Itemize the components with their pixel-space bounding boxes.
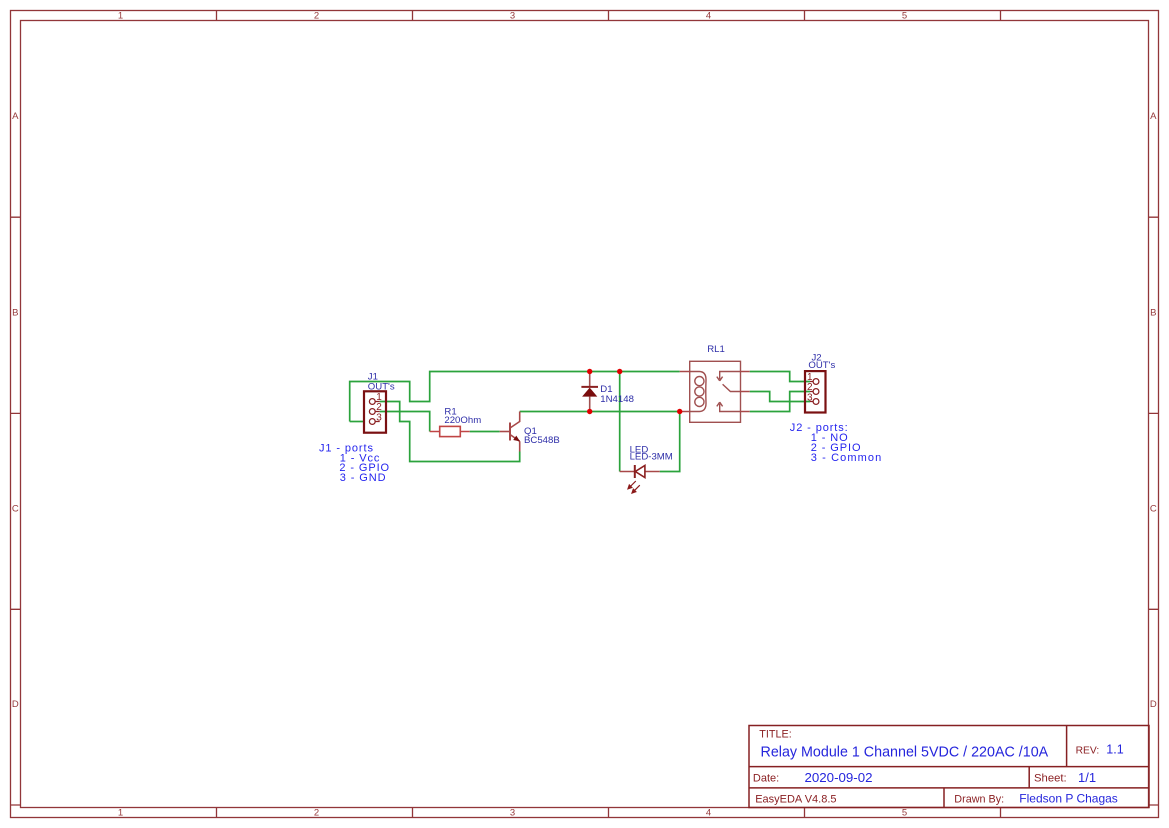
svg-text:Fledson P Chagas: Fledson P Chagas [1019, 792, 1118, 806]
svg-text:1N4148: 1N4148 [600, 394, 634, 405]
svg-text:REV:: REV: [1076, 745, 1100, 756]
svg-text:B: B [1150, 307, 1156, 318]
svg-text:3: 3 [510, 11, 515, 22]
svg-text:D: D [12, 699, 19, 710]
svg-text:Drawn By:: Drawn By: [954, 794, 1004, 806]
svg-text:3: 3 [510, 808, 515, 819]
svg-text:3: 3 [807, 392, 813, 403]
svg-text:1.1: 1.1 [1106, 743, 1123, 757]
svg-text:1: 1 [118, 11, 123, 22]
svg-text:RL1: RL1 [707, 344, 725, 355]
svg-text:OUT's: OUT's [368, 381, 395, 392]
svg-text:3 - GND: 3 - GND [340, 472, 387, 484]
svg-text:4: 4 [706, 11, 711, 22]
svg-text:4: 4 [706, 808, 711, 819]
svg-text:Sheet:: Sheet: [1034, 773, 1067, 785]
svg-text:2020-09-02: 2020-09-02 [805, 770, 873, 785]
svg-text:1: 1 [118, 808, 123, 819]
svg-text:1/1: 1/1 [1078, 770, 1096, 785]
svg-text:B: B [12, 307, 18, 318]
svg-text:2: 2 [314, 11, 319, 22]
svg-text:A: A [1150, 111, 1157, 122]
svg-text:220Ohm: 220Ohm [444, 415, 481, 426]
svg-text:C: C [12, 503, 19, 514]
svg-text:LED-3MM: LED-3MM [630, 452, 673, 463]
svg-text:5: 5 [902, 808, 907, 819]
svg-text:OUT's: OUT's [808, 360, 835, 371]
svg-text:Relay Module 1 Channel 5VDC /: Relay Module 1 Channel 5VDC / 220AC /10A [761, 745, 1049, 761]
svg-text:2: 2 [314, 808, 319, 819]
svg-text:5: 5 [902, 11, 907, 22]
svg-text:3 - Common: 3 - Common [811, 452, 883, 464]
svg-text:C: C [1150, 503, 1157, 514]
svg-text:BC548B: BC548B [524, 435, 560, 446]
svg-text:A: A [12, 111, 19, 122]
svg-text:Date:: Date: [753, 773, 779, 785]
svg-text:TITLE:: TITLE: [759, 728, 791, 740]
svg-text:D: D [1150, 699, 1157, 710]
svg-text:EasyEDA V4.8.5: EasyEDA V4.8.5 [755, 794, 836, 806]
svg-text:3: 3 [376, 412, 382, 423]
